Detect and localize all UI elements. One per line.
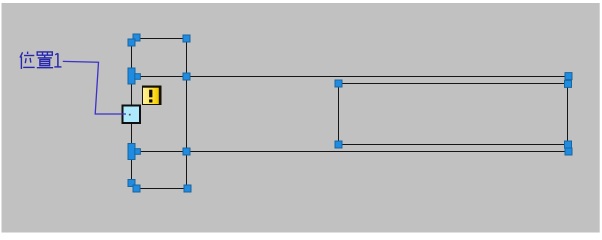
wire V1 left vertical line — [131, 42, 133, 184]
node marker cyan insertion point square — [123, 106, 141, 124]
grip cluster bar at V1/H3 junction — [128, 144, 135, 160]
grip at H4 left endpoint — [133, 185, 140, 192]
warning icon with exclamation mark — [142, 86, 162, 106]
wire H2 upper long horizontal line — [134, 76, 569, 78]
grip at H2 right endpoint — [565, 73, 572, 80]
grip at V2/H2 crossing — [183, 73, 190, 80]
grip at top-right corner H1/V2 — [183, 35, 190, 42]
label text 位置1 — [20, 52, 62, 69]
wire V2 second vertical line — [186, 37, 188, 189]
grip cluster bar at V1/H2 junction — [128, 68, 135, 84]
wire H4 bottom edge of lower small rectangle — [137, 188, 188, 190]
leader line from label to insertion point — [63, 61, 126, 114]
grip square at H3 left endpoint — [135, 149, 141, 155]
grip at V1 bottom endpoint — [128, 180, 135, 187]
grip at bottom-right corner H4/V2 — [184, 185, 191, 192]
grip at R1 top-left corner — [335, 80, 342, 87]
wire H3 lower long horizontal line — [134, 151, 569, 153]
wire H1 top edge of upper small rectangle — [136, 38, 187, 40]
grip at R1 bottom-left corner — [335, 141, 342, 148]
grip square at H2 left endpoint — [135, 74, 141, 80]
grip at V2/H3 crossing — [183, 148, 190, 155]
rectangle R1 long inner rectangle — [339, 84, 568, 145]
grip at H3 right endpoint — [565, 148, 572, 155]
grip at H1 left endpoint — [133, 34, 140, 41]
grip at V1 top endpoint — [128, 39, 135, 46]
grip at R1 bottom-right corner — [565, 141, 572, 148]
grip at R1 top-right corner — [565, 80, 572, 87]
